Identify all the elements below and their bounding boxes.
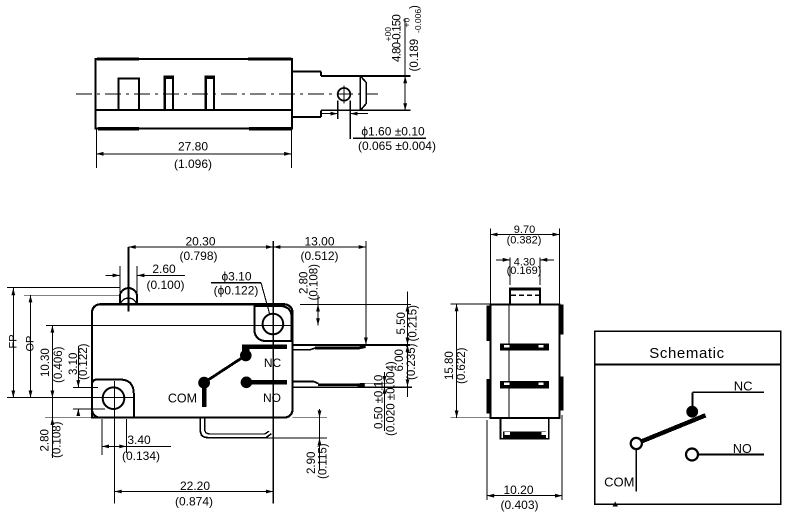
dimension 2.90 line upper (319, 409, 321, 418)
dimension phi1.60 extension line right (349, 101, 351, 140)
svg-text:15.80: 15.80 (444, 351, 456, 380)
svg-text:2.60: 2.60 (152, 262, 176, 276)
svg-text:(1.096): (1.096) (174, 157, 212, 171)
top view inner bottom line (95, 109, 292, 111)
front view plunger left side (119, 297, 121, 305)
side view interior parting line (508, 305, 510, 418)
svg-text:(0.403): (0.403) (500, 498, 538, 512)
dimension 10.20 ext right (561, 415, 563, 500)
front view bottom hole vertical crosshair / extension to 22.20 (114, 381, 116, 504)
top view center line (76, 93, 378, 95)
svg-text:(0.100): (0.100) (146, 278, 184, 292)
dimension 10.20 arrow right (555, 494, 562, 498)
side view COM bracket notch left (504, 432, 510, 435)
dimension 3.40 arrow left (102, 445, 109, 449)
dimension 9.70 arrow right (553, 233, 560, 237)
NC terminal tip (360, 344, 366, 349)
dimension 3.40 ext left (101, 419, 103, 455)
NO terminal top edge near body (293, 381, 319, 383)
dimension 10.30 line (51, 325, 53, 458)
NO terminal bottom edge + extension (293, 386, 413, 388)
svg-text:(0.108): (0.108) (52, 421, 64, 458)
svg-text:(0.235): (0.235) (406, 343, 418, 380)
dimension 5.50/6.00 line (407, 292, 409, 398)
dimension 22.20 arrow left (115, 490, 122, 494)
dimension 5.50 arrow bottom (406, 338, 410, 345)
dimension 13.00 arrow right (359, 245, 366, 249)
dimension 2.80 right arrow bottom (316, 318, 320, 325)
dimension 9.70 ext right (559, 229, 561, 304)
dimension 6.00 arrow top (406, 345, 410, 352)
schematic COM pivot circle (631, 438, 642, 449)
svg-text:(0.382): (0.382) (507, 234, 542, 246)
NC terminal top edge + extension (293, 344, 411, 346)
side view NC bar notch right (538, 345, 543, 348)
dimension 3.10 left line lower (77, 409, 79, 416)
svg-text:2.90: 2.90 (306, 452, 318, 474)
side view NO terminal bar (500, 381, 549, 388)
front view plunger dome operating position arc (120, 298, 136, 304)
dimension 5.50 arrow top (406, 304, 410, 311)
svg-text:+0: +0 (402, 18, 412, 28)
top view flange bar top-right (248, 57, 292, 60)
internal NO bar (250, 380, 287, 385)
dimension 4.30 arrow right (540, 258, 547, 262)
side view NC bar notch left (504, 345, 509, 348)
svg-text:): ) (409, 5, 421, 9)
svg-text:(0.215): (0.215) (408, 305, 420, 342)
top view flange bar bottom-right (249, 127, 292, 130)
dimension 2.60 arrow right (137, 274, 144, 278)
svg-text:Schematic: Schematic (649, 345, 724, 362)
dimension 4.30 ext right (539, 258, 541, 286)
dimension 20.30 / 13.00 line (129, 246, 366, 248)
side view plunger top cap (509, 287, 541, 290)
dimension 4.80 extension implied by terminal edges; dimension line (404, 19, 406, 110)
dimension phi1.60 arrow left (331, 112, 338, 116)
top view terminal hole (338, 88, 351, 101)
side view NC terminal bar (500, 344, 549, 351)
NO terminal blade (318, 384, 358, 387)
svg-text:(0.874): (0.874) (175, 494, 213, 508)
FP dimension line (12, 288, 14, 398)
dimension 3.10 left ext top (73, 386, 98, 388)
dimension 2.60 extension left (119, 266, 121, 301)
top view slot 2 cap (164, 76, 173, 79)
dimension 10.20 line (487, 495, 562, 497)
internal NO contact dot (241, 377, 253, 389)
COM terminal hook outer (200, 418, 271, 438)
dimension 4.30 tail left (496, 259, 510, 261)
svg-text:NC: NC (734, 378, 753, 393)
schematic COM wire (635, 449, 637, 491)
COM terminal hook inner (205, 418, 269, 434)
dimension phi1.60 fraction bar (353, 137, 426, 139)
internal NC bar stub to contact (242, 344, 250, 351)
NC terminal blade (315, 347, 360, 350)
front view bottom-left mounting boss (92, 380, 134, 418)
dimension 2.90 arrow upper (318, 411, 322, 418)
side view COM bracket notch right (542, 432, 548, 435)
svg-text:10.20: 10.20 (503, 483, 533, 497)
dimension 15.80 line (456, 304, 458, 418)
dimension 10.20 ext left (486, 420, 488, 500)
dimension 6.00 arrow bottom (406, 379, 410, 386)
svg-text:(0.065 ±0.004): (0.065 ±0.004) (358, 139, 436, 153)
body bottom edge extension left (45, 417, 91, 419)
side view left flange top (487, 306, 491, 342)
svg-text:ϕ3.10: ϕ3.10 (221, 270, 251, 284)
top view neck step 1 (292, 71, 321, 117)
side view right flange top (560, 305, 564, 335)
dimension 27.80 arrow right (284, 152, 291, 156)
dimension 3.10 left arrow upper (76, 380, 80, 387)
dimension 4.30 arrow left (503, 258, 510, 262)
front view plunger dome free position (120, 288, 137, 297)
schematic lever COM-NC (636, 415, 705, 443)
svg-text:(0.169): (0.169) (507, 265, 542, 277)
svg-text:22.20: 22.20 (180, 479, 210, 493)
dimension phi1.60 arrow line left (322, 113, 338, 115)
dimension 27.80 extension line left (95, 129, 97, 168)
FP arrow bottom (11, 391, 15, 398)
svg-text:27.80: 27.80 (178, 140, 208, 154)
dimension 4.30 tail right (540, 259, 554, 261)
dimension 3.10 left line upper (77, 346, 79, 387)
NC terminal bottom edge near body (293, 348, 316, 350)
dimension 20.30 arrow left (129, 245, 136, 249)
dimension 2.60 arrow left (113, 274, 120, 278)
svg-text:COM: COM (168, 392, 197, 406)
svg-text:0.50 ±0.10: 0.50 ±0.10 (373, 375, 385, 429)
svg-text:(ϕ0.122): (ϕ0.122) (214, 284, 259, 298)
internal NC bar (242, 344, 287, 349)
top view flange bar top-left (97, 57, 139, 60)
OP arrow top (29, 295, 33, 302)
dimension 13.00 arrow left (273, 245, 280, 249)
dimension 22.20 arrow right (266, 490, 273, 494)
top view terminal top edge + extension line (321, 75, 411, 77)
dimension phi3.10 leader (261, 283, 270, 314)
svg-text:FP: FP (8, 334, 20, 348)
dimension 3.40 arrow right (119, 445, 126, 449)
svg-text:(0.406): (0.406) (53, 346, 65, 383)
dimension 0.50 blade top extension (360, 382, 392, 384)
FP extension line (7, 287, 120, 289)
dimension 9.70 line (490, 234, 559, 236)
svg-text:(0.122): (0.122) (78, 343, 90, 380)
top view slot 2 (165, 77, 173, 110)
schematic NO contact circle (686, 449, 698, 461)
dimension 13.00 extension line right with arrow to NC terminal (365, 241, 367, 345)
svg-text:13.00: 13.00 (304, 234, 334, 248)
top view terminal bottom edge + extension line (321, 109, 411, 111)
dimension 15.80 arrow bottom (455, 411, 459, 418)
schematic NC wire (693, 391, 764, 393)
side view body (490, 305, 559, 419)
front view top-right mounting hole (263, 314, 284, 335)
dimension 10.30 arrow top (51, 325, 55, 332)
svg-text:NO: NO (733, 442, 752, 456)
dimension 2.90 arrow lower (318, 438, 322, 445)
svg-text:COM: COM (604, 474, 634, 489)
dimension phi1.60 arrow line right (350, 113, 368, 115)
dimension 0.50 arrow upper (383, 376, 387, 383)
dimension 27.80 arrow left (96, 152, 103, 156)
svg-text:NC: NC (264, 356, 282, 370)
schematic NC contact dot (686, 406, 698, 418)
svg-text:(0.189: (0.189 (409, 39, 421, 72)
svg-text:3.40: 3.40 (127, 433, 151, 447)
side view COM bracket outline (501, 418, 549, 439)
dimension 0.50 arrow lower (383, 387, 387, 394)
top view slot 3 (206, 77, 214, 110)
side view plunger sides (510, 288, 540, 305)
dimension 27.80 extension line right (290, 129, 292, 168)
top view slot 1 (plunger) (119, 78, 139, 110)
internal lever COM to NC (205, 357, 244, 383)
dimension 10.30 arrow bottom (51, 391, 55, 398)
top view flange bar bottom-left (98, 127, 139, 130)
svg-text:20.30: 20.30 (185, 234, 215, 248)
dimension 2.60 tail right / fraction bar (137, 274, 185, 276)
schematic box frame (595, 331, 781, 504)
front view plunger right side (136, 297, 138, 305)
front view hole vertical crosshair / extension to bottom dimension (272, 241, 274, 504)
svg-text:(0.108): (0.108) (309, 264, 321, 301)
dimension phi1.60 arrow right (350, 112, 357, 116)
svg-text:(0.115): (0.115) (317, 443, 329, 479)
side view right flange bottom (560, 377, 564, 411)
dimension 4.80 arrow bottom (403, 103, 407, 110)
schematic NC drop wire (692, 392, 694, 407)
dimension 0.50 line (384, 372, 386, 431)
svg-text:(0.622): (0.622) (456, 347, 468, 384)
dimension 15.80 ext top (451, 303, 492, 305)
front view top-right mounting boss (254, 306, 291, 341)
svg-text:5.50: 5.50 (396, 312, 408, 334)
dimension phi3.10 fraction bar (211, 282, 261, 284)
top view slot 3 cap (205, 76, 214, 79)
internal COM contact dot (198, 377, 210, 389)
svg-text:10.30: 10.30 (40, 348, 52, 377)
dimension 3.10 left ext bottom (73, 408, 105, 410)
side view left flange bottom (487, 379, 491, 414)
front view hole horizontal crosshair / left extension line (46, 324, 291, 326)
dimension 3.40 ext right (126, 419, 128, 453)
dimension 2.80 right line (317, 295, 319, 325)
OP arrow bottom (29, 391, 33, 398)
front view plunger center line (128, 247, 130, 312)
body bottom edge extension right (293, 417, 328, 419)
front view bottom-left mounting hole (103, 387, 125, 409)
print artifact mark below box (613, 502, 619, 507)
dimension 9.70 arrow left (490, 233, 497, 237)
dimension 4.30 ext left (509, 258, 511, 286)
top view terminal hole vertical crosshair (343, 86, 345, 104)
dimension 22.20 line (115, 491, 274, 493)
dimension 9.70 ext left (489, 229, 491, 304)
dimension 4.80 arrow top (403, 76, 407, 83)
dimension 20.30 arrow right (266, 245, 273, 249)
dimension phi1.60 extension line left (337, 101, 339, 120)
side view NO bar notch left (504, 383, 509, 386)
dimension 2.60 tail left (106, 274, 120, 276)
internal COM stem (202, 387, 207, 407)
dimension 13.00 down arrow at NC terminal (364, 338, 368, 345)
hook bottom extension right (210, 437, 327, 439)
internal NC contact dot (240, 350, 252, 362)
schematic title separator (595, 363, 781, 365)
svg-text:NO: NO (263, 391, 281, 405)
svg-text:(0.134): (0.134) (122, 449, 160, 463)
svg-text:ϕ1.60 ±0.10: ϕ1.60 ±0.10 (361, 124, 425, 138)
body top edge extension right (300, 303, 411, 305)
NO terminal tip (358, 383, 365, 387)
dimension 10.20 arrow left (487, 494, 494, 498)
side view plunger dashed line (511, 294, 539, 296)
dimension 2.80 right arrow top (316, 304, 320, 311)
svg-text:-0.006: -0.006 (413, 9, 423, 33)
dimension 27.80 line (96, 153, 291, 155)
FP arrow top (11, 288, 15, 295)
svg-text:OP: OP (25, 336, 37, 352)
svg-text:2.80: 2.80 (40, 429, 52, 451)
schematic NO wire (698, 454, 764, 456)
front view body (92, 304, 293, 417)
dimension 2.60 extension right (136, 266, 138, 301)
dimension 15.80 ext bottom (451, 417, 501, 419)
OP dimension line (30, 295, 32, 398)
svg-text:(0.798): (0.798) (179, 249, 217, 263)
dimension 15.80 arrow top (455, 304, 459, 311)
top view terminal tip (360, 76, 366, 110)
svg-text:+00: +00 (383, 27, 393, 42)
side view COM bracket bar (503, 431, 546, 438)
top view body (95, 59, 292, 128)
side view NO bar notch right (538, 383, 543, 386)
dimension 3.40 line (102, 445, 171, 447)
dimension 2.90 mid line (319, 418, 321, 470)
svg-text:(0.020 ±0.004): (0.020 ±0.004) (385, 361, 397, 436)
OP extension line (24, 294, 121, 296)
dimension 3.10 left arrow lower (76, 409, 80, 416)
dimension 2.80 left arrow below (51, 418, 55, 425)
svg-text:(0.512): (0.512) (300, 249, 338, 263)
front view bottom hole horizontal crosshair / left extension line (7, 397, 134, 399)
dimension 22.20 ext left (114, 455, 116, 504)
